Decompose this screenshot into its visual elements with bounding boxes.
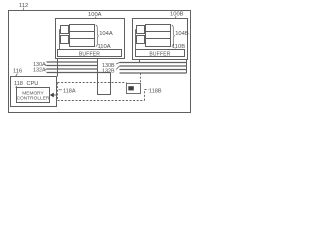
module 100B box [133,19,188,60]
DRAM stack 104B [146,25,171,47]
wire: module A internal bus [60,30,61,50]
register chip A2 [61,36,69,44]
wire bus 130A line 1 [47,61,99,63]
svg-text:100A: 100A [88,12,102,18]
leader for label 116 [16,74,18,77]
wire: module B internal bus [136,30,137,50]
termination box on net 118B [127,84,141,94]
dashed control net 118B stub to label [145,89,149,91]
dashed drop from bus to termination box [140,73,142,84]
CPU text [27,81,39,87]
termination box black chip [128,86,134,90]
dashed control net 118A horizontal [58,82,127,84]
svg-text:118: 118 [14,81,23,87]
buffer 110A text [79,51,100,57]
wire bus 130A line 2 [47,65,99,67]
arrowhead at controller input [50,93,54,98]
wire bus 130B line 1 [120,62,187,64]
leader for label 118 [16,86,18,88]
label 130B [102,63,115,69]
wire bus 130B line 2 [120,65,187,67]
memory controller text [17,90,50,101]
label 118A [63,88,76,94]
dashed control net 118A vertical [57,83,59,101]
leader for label 132A [45,68,47,71]
wire bus 132B line 1 [120,69,187,71]
label 104A [99,31,113,37]
label 118 [14,81,23,87]
module 100A box [56,19,125,59]
label 100A [88,12,102,18]
memory controller box 118 [17,88,50,103]
leader for label 110A [99,49,102,50]
svg-text:118B: 118B [149,88,162,94]
svg-text:132B: 132B [102,69,115,75]
svg-text:BUFFER: BUFFER [79,51,100,57]
label 116 [13,69,22,75]
label 132A [33,68,46,74]
buffer 110A bar [58,50,122,57]
svg-text:118A: 118A [63,88,76,94]
wire bus 132A line 2 [47,72,111,74]
label 104B [175,31,189,37]
leader for label 100B [174,16,177,19]
svg-text:132A: 132A [33,68,46,74]
label 110B [172,44,185,50]
wire: module B tap to bus [139,60,141,63]
svg-text:MEMORY: MEMORY [22,90,44,96]
svg-text:104A: 104A [99,31,113,37]
brace for 104A [96,25,99,47]
leader for label 132B [116,66,120,70]
wire bus 132B line 2 [120,72,187,74]
label 118B [149,88,162,94]
leader for label 118A [59,89,63,91]
register chip B1 [137,26,145,34]
dashed control net 118B riser [144,90,146,101]
DRAM stack 104B internal dividers [146,32,171,39]
leader for label 100A [94,17,97,19]
brace for 104B [172,25,175,47]
DRAM stack 104A [70,25,95,47]
svg-text:CONTROLLER: CONTROLLER [17,96,50,102]
leader for label 130A [45,64,47,65]
buffer 110B text [149,51,170,57]
wire: module A loop-through to bus [98,59,111,95]
wire: module A buffer to CPU drop [57,59,59,77]
svg-text:104B: 104B [175,31,189,37]
label 112 [19,3,28,9]
wire: module B right riser to bus [186,60,188,74]
DRAM stack 104A internal dividers [70,32,95,39]
label 132B [102,69,115,75]
wire: controller output stub [53,94,58,96]
svg-text:CPU: CPU [27,81,39,87]
label 110A [98,44,111,50]
buffer 110B bar [136,50,185,57]
wire bus 132A line 1 [47,68,99,70]
CPU box 116 [11,77,57,107]
label 100B [170,12,184,18]
register chip A1 [61,26,69,34]
leader for label 110B [174,49,177,50]
leader for label 112 [23,8,24,11]
svg-text:BUFFER: BUFFER [149,51,170,57]
leader for label 130B [116,63,120,65]
dashed control net 118B bottom run [58,100,145,102]
label 130A [33,62,46,68]
svg-text:100B: 100B [170,12,184,18]
register chip B2 [137,36,145,44]
outer system box 112 [9,11,191,113]
